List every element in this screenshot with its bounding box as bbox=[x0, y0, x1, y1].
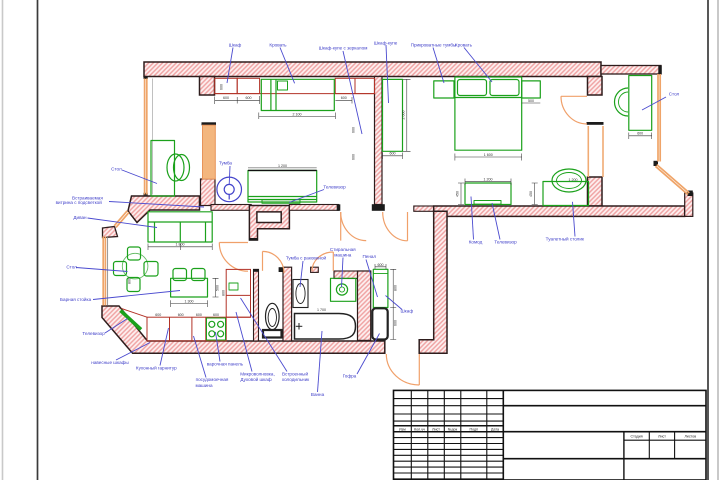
svg-text:800: 800 bbox=[127, 278, 131, 284]
svg-text:Пенал: Пенал bbox=[362, 254, 376, 259]
svg-text:1 200: 1 200 bbox=[278, 164, 287, 168]
svg-text:2 000: 2 000 bbox=[402, 111, 406, 120]
svg-text:Шкаф: Шкаф bbox=[400, 308, 413, 313]
svg-text:Стиральная: Стиральная bbox=[330, 247, 356, 252]
svg-text:2 100: 2 100 bbox=[293, 112, 302, 116]
svg-text:Лист: Лист bbox=[658, 435, 666, 439]
svg-text:600: 600 bbox=[220, 84, 224, 90]
svg-text:Кровать: Кровать bbox=[455, 43, 473, 48]
svg-text:Шкаф-купе: Шкаф-купе bbox=[374, 41, 398, 46]
svg-text:600: 600 bbox=[637, 132, 643, 136]
svg-text:Барная стойка: Барная стойка bbox=[60, 296, 92, 302]
svg-text:Встроенный: Встроенный bbox=[282, 370, 309, 376]
svg-text:Шкаф-купе с зеркалом: Шкаф-купе с зеркалом bbox=[319, 46, 368, 51]
svg-text:600: 600 bbox=[196, 313, 202, 317]
svg-text:Кровать: Кровать bbox=[269, 43, 287, 48]
svg-text:1 300: 1 300 bbox=[185, 300, 194, 304]
svg-text:Шкаф: Шкаф bbox=[229, 43, 242, 48]
svg-text:Стадия: Стадия bbox=[630, 435, 642, 439]
svg-text:1 800: 1 800 bbox=[176, 243, 185, 247]
svg-text:Изм: Изм bbox=[399, 428, 406, 432]
svg-text:1 700: 1 700 bbox=[317, 308, 326, 312]
svg-text:Гофра: Гофра bbox=[343, 374, 357, 379]
svg-text:Тумба с раковиной: Тумба с раковиной bbox=[286, 255, 327, 261]
svg-text:Стол: Стол bbox=[111, 166, 122, 171]
svg-text:Телевизор: Телевизор bbox=[323, 185, 346, 190]
svg-text:600: 600 bbox=[246, 96, 252, 100]
svg-text:800: 800 bbox=[222, 290, 226, 296]
svg-text:Кухонный гарнитур: Кухонный гарнитур bbox=[136, 364, 177, 370]
svg-text:800: 800 bbox=[394, 285, 398, 291]
svg-text:Дата: Дата bbox=[491, 428, 499, 432]
svg-text:навесные шкафы: навесные шкафы bbox=[91, 360, 128, 365]
svg-text:600: 600 bbox=[378, 263, 384, 267]
svg-text:450: 450 bbox=[456, 191, 460, 197]
svg-text:Подп: Подп bbox=[470, 428, 479, 432]
svg-text:Прикроватные тумбы: Прикроватные тумбы bbox=[411, 43, 457, 48]
svg-text:600: 600 bbox=[178, 313, 184, 317]
svg-text:Стол: Стол bbox=[669, 92, 680, 97]
svg-text:600: 600 bbox=[390, 152, 396, 156]
svg-text:машина: машина bbox=[334, 252, 352, 257]
svg-text:Тумба: Тумба bbox=[219, 160, 232, 165]
svg-text:Диван: Диван bbox=[73, 215, 87, 220]
svg-text:600: 600 bbox=[155, 313, 161, 317]
svg-text:600: 600 bbox=[223, 96, 229, 100]
svg-text:600: 600 bbox=[352, 154, 356, 160]
svg-text:машина: машина bbox=[195, 383, 213, 388]
svg-text:Комод: Комод bbox=[469, 239, 483, 244]
svg-text:посудомоечная: посудомоечная bbox=[196, 377, 229, 382]
svg-text:600: 600 bbox=[213, 313, 219, 317]
svg-text:Духовой шкаф: Духовой шкаф bbox=[240, 376, 271, 382]
svg-text:№док: №док bbox=[448, 428, 458, 432]
svg-text:Листов: Листов bbox=[684, 435, 696, 439]
svg-text:1 200: 1 200 bbox=[569, 178, 578, 182]
svg-text:600: 600 bbox=[394, 320, 398, 326]
svg-text:Микроволновка,: Микроволновка, bbox=[240, 371, 275, 376]
svg-text:1 600: 1 600 bbox=[484, 153, 493, 157]
svg-text:500: 500 bbox=[216, 285, 220, 291]
svg-text:Кол.уч: Кол.уч bbox=[414, 428, 425, 432]
svg-text:витрина с подсветкой: витрина с подсветкой bbox=[56, 199, 103, 205]
svg-text:Телевизор: Телевизор bbox=[82, 331, 105, 336]
svg-text:холодильник: холодильник bbox=[282, 377, 310, 382]
svg-text:варочная панель: варочная панель bbox=[207, 361, 244, 366]
svg-text:Стол: Стол bbox=[66, 265, 77, 270]
svg-text:Туалетный столик: Туалетный столик bbox=[546, 235, 585, 241]
svg-text:1 200: 1 200 bbox=[484, 178, 493, 182]
svg-text:450: 450 bbox=[529, 191, 533, 197]
svg-text:Ванна: Ванна bbox=[311, 392, 325, 397]
svg-text:Лист: Лист bbox=[432, 428, 440, 432]
svg-text:500: 500 bbox=[528, 99, 534, 103]
svg-text:Телевизор: Телевизор bbox=[494, 239, 517, 244]
svg-text:600: 600 bbox=[352, 127, 356, 133]
svg-text:600: 600 bbox=[341, 96, 347, 100]
